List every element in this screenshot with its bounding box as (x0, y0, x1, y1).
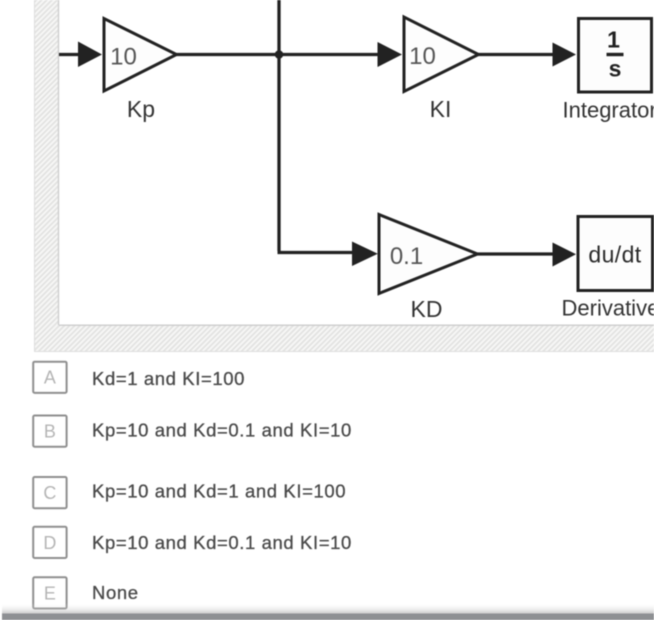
svg-text:10: 10 (409, 43, 436, 70)
svg-text:Kp=10 and Kd=0.1 and KI=10: Kp=10 and Kd=0.1 and KI=10 (92, 420, 352, 441)
svg-text:None: None (92, 582, 139, 603)
svg-text:1: 1 (607, 27, 620, 53)
svg-text:Derivative: Derivative (562, 295, 654, 320)
svg-text:Integrator: Integrator (563, 98, 654, 123)
svg-text:A: A (44, 368, 56, 388)
svg-text:Kp: Kp (127, 96, 155, 122)
svg-text:0.1: 0.1 (390, 243, 423, 270)
svg-text:B: B (44, 422, 56, 442)
svg-text:Kp=10 and Kd=0.1 and KI=10: Kp=10 and Kd=0.1 and KI=10 (92, 532, 352, 553)
svg-text:C: C (43, 483, 56, 503)
svg-text:D: D (43, 533, 56, 553)
svg-text:KI: KI (430, 96, 452, 122)
svg-text:E: E (44, 583, 56, 603)
svg-text:KD: KD (411, 296, 443, 322)
svg-text:10: 10 (110, 44, 137, 71)
svg-text:Kp=10 and Kd=1 and KI=100: Kp=10 and Kd=1 and KI=100 (92, 481, 346, 502)
svg-text:du/dt: du/dt (588, 242, 641, 268)
svg-text:s: s (609, 56, 622, 82)
svg-text:Kd=1 and KI=100: Kd=1 and KI=100 (92, 368, 245, 389)
